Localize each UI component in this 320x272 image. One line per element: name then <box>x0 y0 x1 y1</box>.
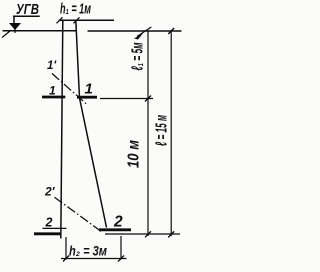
svg-text:h₂ = 3м: h₂ = 3м <box>69 244 107 259</box>
svg-text:2: 2 <box>45 215 53 229</box>
svg-text:h₁ = 1м: h₁ = 1м <box>60 1 91 18</box>
svg-text:2: 2 <box>113 213 123 230</box>
svg-text:ℓ = 15 м: ℓ = 15 м <box>154 115 171 146</box>
svg-text:ℓ₁ = 5м: ℓ₁ = 5м <box>130 42 147 70</box>
svg-text:2': 2' <box>44 184 56 198</box>
svg-text:10 м: 10 м <box>126 140 143 168</box>
svg-text:1': 1' <box>47 60 57 72</box>
svg-text:УГВ: УГВ <box>16 2 39 18</box>
svg-text:1: 1 <box>49 83 56 97</box>
svg-text:1: 1 <box>85 80 93 97</box>
